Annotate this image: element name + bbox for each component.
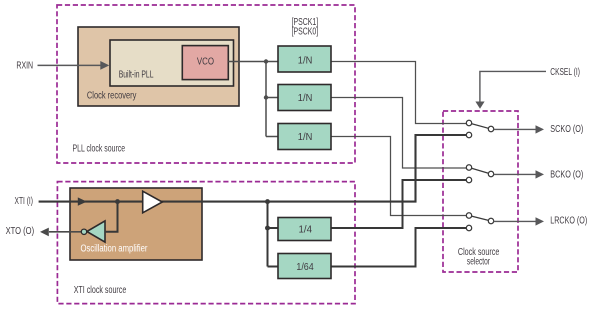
svg-text:1/N: 1/N: [298, 93, 313, 104]
svg-text:SCKO (O): SCKO (O): [550, 124, 583, 135]
svg-text:XTI (I): XTI (I): [15, 196, 34, 207]
svg-text:XTI clock source: XTI clock source: [74, 285, 127, 296]
svg-text:Clock recovery: Clock recovery: [87, 91, 136, 102]
svg-text:1/N: 1/N: [298, 56, 313, 67]
svg-text:VCO: VCO: [197, 57, 214, 68]
svg-text:Oscillation amplifier: Oscillation amplifier: [81, 243, 149, 254]
svg-text:1/64: 1/64: [296, 262, 314, 273]
svg-text:BCKO (O): BCKO (O): [550, 169, 583, 180]
svg-text:[PSCK0]: [PSCK0]: [292, 27, 319, 38]
svg-text:LRCKO (O): LRCKO (O): [550, 215, 587, 226]
svg-text:PLL clock source: PLL clock source: [73, 143, 126, 154]
svg-text:Built-in PLL: Built-in PLL: [119, 69, 154, 80]
svg-text:selector: selector: [467, 257, 491, 268]
svg-text:CKSEL (I): CKSEL (I): [550, 67, 580, 78]
svg-text:1/N: 1/N: [298, 132, 313, 143]
svg-text:RXIN: RXIN: [16, 61, 33, 72]
svg-text:XTO (O): XTO (O): [6, 226, 34, 237]
svg-text:1/4: 1/4: [299, 224, 313, 235]
